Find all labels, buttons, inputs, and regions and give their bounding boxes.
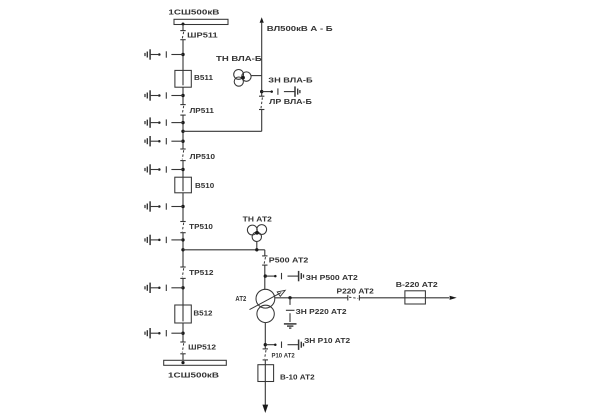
breaker В-220 АТ2 [405, 291, 426, 304]
svg-text:ВЛ500кВ А - Б: ВЛ500кВ А - Б [267, 26, 333, 33]
label 1СШ500кВ (top) [168, 9, 219, 16]
disconnector ЛР510 [180, 149, 185, 161]
disconnector ТР510 [180, 222, 185, 233]
breaker В511 [175, 70, 191, 87]
disconnector ШР512 [180, 342, 185, 354]
svg-text:1СШ500кВ: 1СШ500кВ [168, 372, 219, 379]
svg-text:ШР512: ШР512 [188, 345, 216, 352]
svg-text:В-220 АТ2: В-220 АТ2 [396, 282, 438, 289]
svg-text:Р220 АТ2: Р220 АТ2 [337, 288, 374, 295]
svg-text:ШР511: ШР511 [187, 33, 218, 40]
label ТР510 [189, 224, 213, 231]
label ЗН ВЛА-Б [268, 77, 312, 84]
label АТ2 [235, 296, 246, 303]
breaker В512 [175, 305, 192, 323]
line terminal arrow ВЛ500кВ [260, 17, 264, 75]
wire through В-10 [264, 365, 266, 382]
wire corner АТ2 bay [264, 250, 266, 256]
earthing switch below ТР510 [145, 235, 185, 245]
wire ЛР510 to В510 [182, 161, 184, 178]
regulation arrow АТ2 [250, 290, 286, 309]
svg-text:Р500 АТ2: Р500 АТ2 [269, 257, 309, 264]
disconnector ЛР ВЛА-Б [259, 96, 264, 109]
label ШР512 [188, 345, 216, 352]
svg-text:ЗН Р220 АТ2: ЗН Р220 АТ2 [296, 309, 347, 316]
busbar 1СШ500кВ (bottom) [164, 360, 227, 365]
breaker В510 [175, 177, 192, 193]
wire tap to line bay [183, 130, 262, 132]
breaker В-10 АТ2 [258, 365, 274, 382]
label ЗН Р10 АТ2 [304, 338, 350, 345]
disconnector Р220 АТ2 [348, 295, 360, 300]
autotransformer АТ2 [256, 289, 275, 322]
earthing switch at В510 top [145, 164, 185, 174]
earthing switch at В510 bottom [145, 201, 185, 211]
label 1СШ500кВв (bottom) [168, 372, 219, 379]
busbar 1СШ500кВ (top) [174, 19, 228, 25]
earthing switch below ЛР511 [145, 117, 185, 127]
label Р220 АТ2 [337, 288, 374, 295]
node ЗН Р220 tap [288, 296, 291, 299]
label ТН ВЛА-Б [216, 56, 262, 63]
disconnector Р10 АТ2 [263, 349, 268, 360]
svg-text:Р10 АТ2: Р10 АТ2 [272, 352, 295, 359]
label Р500 АТ2 [269, 257, 309, 264]
node line tap to ВЛ500 [181, 130, 184, 133]
line terminal arrow 220кВ [450, 296, 457, 300]
label ЛР511 [190, 108, 214, 115]
label В512 [193, 311, 212, 318]
label ЛР ВЛА-Б [269, 99, 312, 106]
wire ТР510 to ТР512 [182, 233, 184, 267]
label В510 [195, 183, 214, 190]
wire ШР511 to В511 [182, 40, 184, 71]
svg-text:В512: В512 [193, 311, 212, 318]
wire В512 to ШР512 [182, 323, 184, 342]
svg-text:ТН ВЛА-Б: ТН ВЛА-Б [216, 56, 262, 63]
earthing switch ЗН Р500 АТ2 [264, 271, 304, 281]
wire ТР512 to В512 [182, 278, 184, 305]
wire ЛР ВЛА-Б down to tap corner [261, 110, 263, 132]
earthing switch ЗН Р220 АТ2 [284, 298, 297, 328]
earthing switch ЗН Р10 АТ2 [264, 340, 304, 350]
wire ТН tap to ЗН ВЛА-Б [261, 76, 263, 97]
label ТР512 [189, 270, 214, 277]
svg-text:ЛР510: ЛР510 [190, 154, 216, 161]
disconnector Р500 АТ2 [262, 256, 267, 265]
wire tap to АТ2 bay [183, 249, 265, 251]
label ЗН Р500 АТ2 [306, 275, 358, 282]
disconnector ЛР511 [180, 105, 185, 116]
wire busbar to ШР511 [182, 25, 184, 31]
wire АТ2 to Р220 [275, 297, 348, 299]
label ШР511 [187, 33, 218, 40]
feeder arrow 10кВ [262, 382, 268, 414]
wire Р10 to В-10 [264, 360, 266, 365]
label ТН АТ2 [243, 216, 272, 223]
label Р10 АТ2 [272, 352, 295, 359]
label В-220 АТ2 [396, 282, 438, 289]
svg-text:ТР510: ТР510 [189, 224, 213, 231]
svg-text:ЛР ВЛА-Б: ЛР ВЛА-Б [269, 99, 312, 106]
earthing switch at В512 bottom [145, 328, 185, 338]
wire АТ2 to Р10 [264, 323, 266, 349]
disconnector ШР511 [180, 31, 185, 40]
earthing switch at В511 bottom [145, 90, 185, 100]
wire ЛР511 to ЛР510 [182, 115, 184, 149]
label В-10 АТ2 [280, 375, 315, 382]
svg-text:В510: В510 [195, 183, 214, 190]
wire Р220 to В-220 [359, 297, 449, 299]
earthing switch at В511 top [145, 49, 185, 59]
label ВЛ500кВ А - Б [267, 26, 333, 33]
wire Р500 to АТ2 [264, 265, 266, 289]
svg-text:В-10 АТ2: В-10 АТ2 [280, 375, 315, 382]
label ЛР510 [190, 154, 216, 161]
svg-text:ТН АТ2: ТН АТ2 [243, 216, 272, 223]
svg-text:ЗН Р10 АТ2: ЗН Р10 АТ2 [304, 338, 350, 345]
voltage transformer ТН ВЛА-Б [234, 70, 262, 87]
wire В511 to ЛР511 [182, 87, 184, 104]
earthing switch above ЛР510 [145, 136, 185, 146]
voltage transformer ТН АТ2 [247, 225, 266, 252]
svg-text:ЗН ВЛА-Б: ЗН ВЛА-Б [268, 77, 312, 84]
earthing switch at В512 top [145, 283, 185, 293]
svg-text:ЛР511: ЛР511 [190, 108, 214, 115]
svg-text:1СШ500кВ: 1СШ500кВ [168, 9, 219, 16]
wire В510 to ТР510 [182, 193, 184, 222]
svg-text:ЗН Р500 АТ2: ЗН Р500 АТ2 [306, 275, 358, 282]
wire ШР512 to bottom busbar [182, 354, 184, 361]
node AT2 tap [181, 248, 184, 251]
label В511 [194, 75, 213, 82]
label ЗН Р220 АТ2 [296, 309, 347, 316]
disconnector ТР512 [180, 267, 185, 278]
svg-text:ТР512: ТР512 [189, 270, 214, 277]
svg-text:АТ2: АТ2 [235, 296, 246, 303]
svg-text:В511: В511 [194, 75, 213, 82]
earthing switch ЗН ВЛА-Б [260, 86, 300, 96]
